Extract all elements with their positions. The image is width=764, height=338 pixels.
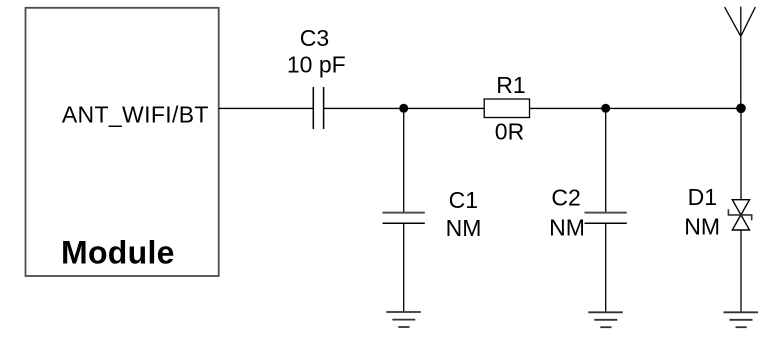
wire: C1 to ground xyxy=(403,223,405,312)
svg-text:0R: 0R xyxy=(495,119,524,145)
wire: D1 to ground xyxy=(740,230,742,312)
wire: C2 to ground xyxy=(605,223,607,312)
module U (box) xyxy=(26,8,219,276)
svg-text:10 pF: 10 pF xyxy=(287,52,346,78)
wire: module pin to C3 left plate xyxy=(219,107,314,109)
capacitor C3 xyxy=(313,87,323,129)
wire: node C down to D1 xyxy=(740,108,742,199)
svg-text:NM: NM xyxy=(549,214,585,240)
wire: node B down to C2 xyxy=(605,108,607,212)
ground (C1) xyxy=(386,312,421,327)
svg-text:ANT_WIFI/BT: ANT_WIFI/BT xyxy=(62,102,209,128)
resistor R1 xyxy=(484,99,529,118)
ground (D1) xyxy=(724,312,759,327)
svg-text:NM: NM xyxy=(684,213,720,239)
capacitor C1 xyxy=(383,213,425,224)
ground (C2) xyxy=(588,312,623,327)
svg-text:C2: C2 xyxy=(551,185,580,211)
svg-text:C3: C3 xyxy=(300,25,329,51)
node B (junction dot at C2 branch) xyxy=(601,104,610,113)
node C (junction dot at antenna/D1 branch) xyxy=(736,104,746,114)
wire: C3 right plate to R1 xyxy=(324,107,484,109)
svg-text:Module: Module xyxy=(61,234,175,270)
capacitor C2 xyxy=(585,213,627,224)
antenna ANT1 xyxy=(725,7,756,108)
svg-text:R1: R1 xyxy=(496,72,525,98)
node A (junction dot at C1 branch) xyxy=(399,104,408,113)
svg-text:C1: C1 xyxy=(449,187,478,213)
svg-text:D1: D1 xyxy=(688,184,717,210)
wire: node A down to C1 xyxy=(403,108,405,212)
diode D1 (bidirectional TVS) xyxy=(728,200,751,230)
svg-text:NM: NM xyxy=(446,215,482,241)
wire: R1 to antenna node xyxy=(530,107,742,109)
